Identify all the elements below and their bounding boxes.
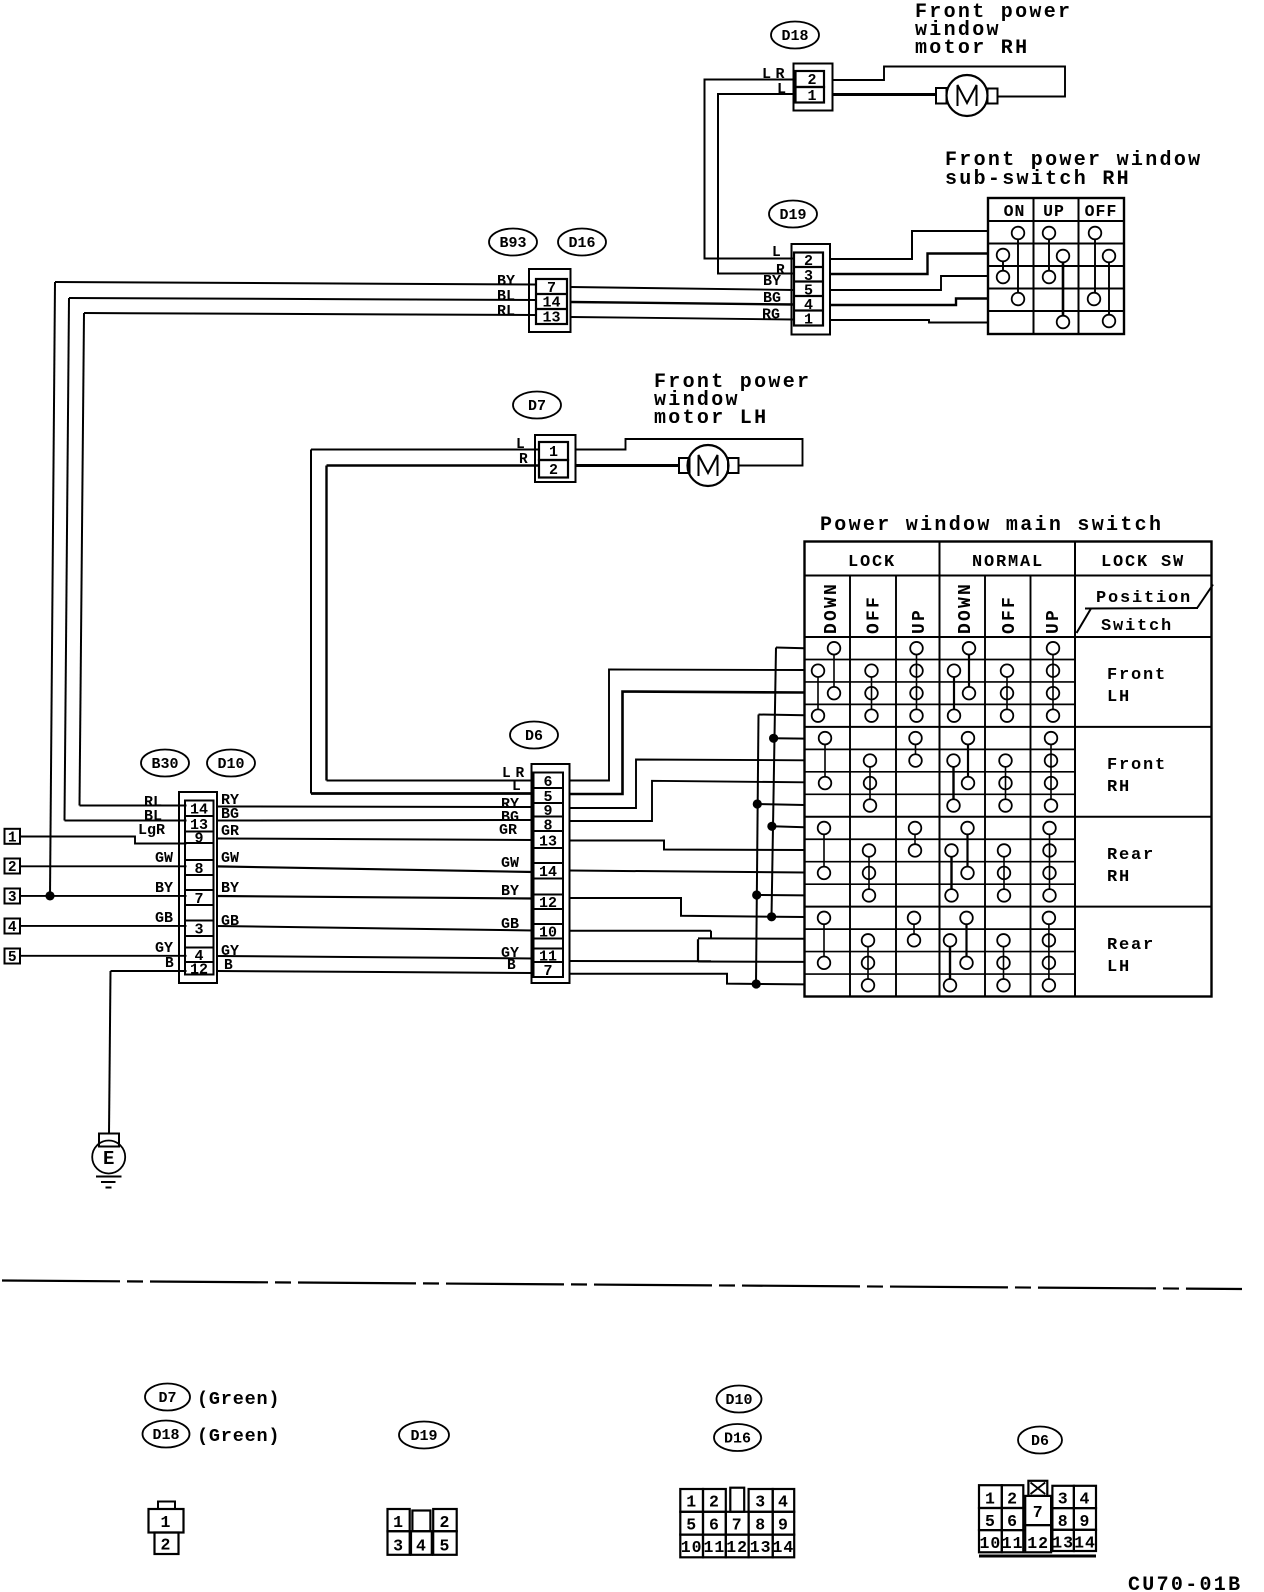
pinout icon D10/D16 bbox=[680, 1488, 794, 1558]
wire labels L R at D7 bbox=[516, 437, 528, 468]
svg-text:Rear: Rear bbox=[1107, 846, 1155, 865]
wire labels at D19: L R BY BG RG bbox=[762, 245, 785, 324]
svg-text:LOCK SW: LOCK SW bbox=[1101, 553, 1185, 572]
svg-text:7: 7 bbox=[194, 891, 203, 908]
wire terminal1 LgR to B30 pin9 bbox=[20, 837, 187, 844]
svg-text:8: 8 bbox=[755, 1515, 766, 1534]
svg-text:14: 14 bbox=[190, 802, 208, 819]
svg-text:L: L bbox=[772, 245, 781, 261]
legend oval D19 bbox=[399, 1422, 449, 1449]
svg-text:GR: GR bbox=[221, 823, 239, 840]
wire D6 pin9 to table row6 bbox=[570, 760, 805, 809]
sub-switch RH contact table bbox=[988, 198, 1124, 334]
svg-text:Front: Front bbox=[1107, 756, 1167, 775]
svg-text:(Green): (Green) bbox=[197, 1389, 280, 1410]
wire B30 pin9 GR to D6 pin13 bbox=[217, 839, 534, 841]
svg-text:GW: GW bbox=[155, 850, 173, 867]
svg-text:10: 10 bbox=[539, 925, 557, 942]
wire terminal5 GY to B30 pin4 bbox=[20, 955, 187, 957]
svg-text:LgR: LgR bbox=[138, 822, 165, 839]
wire B93 pin7 to D19 pin5 (BY) bbox=[571, 287, 795, 290]
svg-text:14: 14 bbox=[539, 864, 557, 881]
page terminal 4 bbox=[5, 919, 21, 937]
svg-text:2: 2 bbox=[807, 72, 816, 89]
connector oval D19 bbox=[769, 201, 817, 228]
svg-text:motor LH: motor LH bbox=[654, 407, 768, 430]
svg-text:1: 1 bbox=[804, 312, 813, 329]
svg-text:GR: GR bbox=[499, 822, 517, 839]
wire D19 pin2 to sub-switch row1 bbox=[830, 231, 988, 259]
wire label L at D18 pin1 bbox=[777, 81, 786, 98]
wire D7 pin2 to motor LH left terminal bbox=[576, 464, 680, 467]
svg-text:1: 1 bbox=[686, 1493, 697, 1512]
wire D18 pin2 to D19 pin2 (LR) bbox=[705, 80, 796, 259]
svg-text:BY: BY bbox=[155, 880, 173, 897]
legend oval D7 bbox=[145, 1384, 190, 1411]
svg-text:13: 13 bbox=[1052, 1534, 1074, 1553]
svg-text:12: 12 bbox=[1027, 1534, 1049, 1553]
switch group labels Front LH / Front RH / Rear RH / Rear LH bbox=[1107, 666, 1167, 707]
connector oval D7 bbox=[513, 392, 561, 419]
svg-text:4: 4 bbox=[1080, 1490, 1091, 1509]
svg-text:5: 5 bbox=[8, 950, 17, 966]
junction dot BY bbox=[45, 891, 54, 900]
svg-text:6: 6 bbox=[1007, 1512, 1018, 1531]
svg-text:B: B bbox=[507, 958, 516, 974]
svg-text:DOWN: DOWN bbox=[822, 582, 842, 634]
wire D6 pin10 to table row14 bbox=[570, 931, 805, 939]
wire D18 pin2 to motor RH right terminal bbox=[833, 67, 1066, 97]
label: Front power window motor RH bbox=[915, 1, 1072, 60]
svg-text:8: 8 bbox=[1058, 1512, 1069, 1531]
switch contacts Rear LH group bbox=[818, 912, 1055, 992]
svg-text:D10: D10 bbox=[217, 756, 244, 773]
svg-text:D18: D18 bbox=[781, 28, 808, 45]
label: Front power window motor LH bbox=[654, 371, 811, 430]
wire labels BY BL RL at B93 bbox=[497, 273, 515, 320]
svg-text:DOWN: DOWN bbox=[956, 582, 976, 634]
page terminal 5 bbox=[5, 949, 21, 967]
svg-text:D7: D7 bbox=[158, 1390, 176, 1407]
wire D19 pin3 to sub-switch row2 bbox=[830, 254, 988, 275]
wire D6 pin12 to table row13 bbox=[570, 898, 805, 917]
wire D7 pin1 to motor LH right terminal bbox=[576, 439, 803, 466]
wire D19 pin1 to sub-switch row5 bbox=[830, 320, 988, 323]
svg-text:BY: BY bbox=[763, 273, 781, 290]
svg-text:GB: GB bbox=[221, 913, 239, 930]
svg-text:10: 10 bbox=[681, 1538, 703, 1557]
switch contacts Rear RH group bbox=[818, 822, 1056, 902]
svg-text:sub-switch RH: sub-switch RH bbox=[945, 168, 1131, 191]
pinout icon D7/D18 bbox=[149, 1502, 184, 1555]
label: Front power window sub-switch RH bbox=[945, 149, 1202, 191]
wire B93 pin13 to D19 pin1 (RG) bbox=[571, 317, 795, 320]
svg-text:RH: RH bbox=[1107, 868, 1131, 887]
section separator line bbox=[2, 1281, 1242, 1290]
svg-text:3: 3 bbox=[1058, 1490, 1069, 1509]
svg-text:5: 5 bbox=[439, 1537, 450, 1556]
svg-text:Power window main switch: Power window main switch bbox=[820, 514, 1163, 537]
wire D6 pin5 to table row3 bbox=[570, 692, 805, 795]
svg-text:OFF: OFF bbox=[865, 595, 885, 634]
wire labels at D6 left: LR L RY BG GR GW BY GB GY B bbox=[499, 766, 525, 974]
wire D7 pin2 R to D6 pin6 bbox=[327, 466, 540, 781]
wire terminal2 GW to B30 pin8 bbox=[20, 865, 187, 867]
svg-text:11: 11 bbox=[703, 1538, 725, 1557]
svg-text:L: L bbox=[502, 766, 511, 782]
svg-text:14: 14 bbox=[1074, 1534, 1096, 1553]
legend D7 color note bbox=[197, 1389, 280, 1410]
wire D6 pin8 to table row7 bbox=[570, 781, 805, 821]
wire B30 pin4 GY to D6 pin11 bbox=[217, 956, 534, 959]
svg-text:D7: D7 bbox=[528, 398, 546, 415]
svg-text:B30: B30 bbox=[151, 756, 178, 773]
svg-text:(Green): (Green) bbox=[197, 1426, 280, 1447]
svg-text:4: 4 bbox=[416, 1537, 427, 1556]
legend D18 color note bbox=[197, 1426, 280, 1447]
svg-text:Switch: Switch bbox=[1101, 617, 1173, 636]
svg-text:1: 1 bbox=[393, 1513, 404, 1532]
wire B30 pin3 GB to D6 pin10 bbox=[217, 926, 534, 931]
svg-text:2: 2 bbox=[549, 462, 558, 479]
wire D19 pin5 to sub-switch row3 bbox=[830, 276, 988, 290]
wire terminal4 GB to B30 pin3 bbox=[20, 925, 187, 927]
connector ovals B30 and D10 bbox=[141, 750, 189, 777]
connector ovals B93 and D16 bbox=[489, 229, 537, 256]
svg-text:ON: ON bbox=[1004, 202, 1026, 221]
page terminal 2 bbox=[5, 859, 21, 877]
svg-text:motor RH: motor RH bbox=[915, 37, 1029, 60]
connector oval D6 bbox=[510, 722, 558, 749]
legend oval D18 bbox=[143, 1421, 190, 1448]
svg-text:UP: UP bbox=[1043, 202, 1065, 221]
wire label LR at D18 pin2 bbox=[762, 66, 785, 83]
pinout icon D6 bbox=[979, 1481, 1096, 1556]
svg-text:1: 1 bbox=[549, 444, 558, 461]
svg-text:9: 9 bbox=[778, 1515, 789, 1534]
svg-text:1: 1 bbox=[8, 830, 17, 846]
svg-text:8: 8 bbox=[543, 817, 552, 834]
svg-text:8: 8 bbox=[194, 861, 203, 878]
svg-text:14: 14 bbox=[773, 1538, 795, 1557]
svg-text:LH: LH bbox=[1107, 958, 1131, 977]
svg-text:OFF: OFF bbox=[1000, 595, 1020, 634]
wire D6 pin6 to table row2 bbox=[570, 670, 805, 781]
legend oval D16 bbox=[714, 1424, 761, 1451]
svg-text:4: 4 bbox=[8, 920, 17, 936]
svg-text:Rear: Rear bbox=[1107, 936, 1155, 955]
svg-text:Position: Position bbox=[1096, 589, 1192, 608]
motor M2 Front power window motor LH bbox=[679, 445, 739, 486]
svg-text:2: 2 bbox=[439, 1513, 450, 1532]
svg-text:12: 12 bbox=[190, 962, 208, 979]
svg-text:13: 13 bbox=[750, 1538, 772, 1557]
sub-switch contacts OFF column bbox=[1088, 227, 1116, 328]
sub-switch contacts UP column bbox=[1043, 227, 1070, 329]
svg-text:D16: D16 bbox=[568, 235, 595, 252]
svg-text:7: 7 bbox=[1033, 1503, 1044, 1522]
drawing number CU70-01B bbox=[1128, 1574, 1242, 1592]
svg-text:10: 10 bbox=[979, 1534, 1001, 1553]
header texts LOCK NORMAL LOCK SW bbox=[848, 553, 1185, 572]
wire D6 pin13 to table row10 bbox=[570, 841, 805, 851]
wire B93 pin7 BY long run to junction bbox=[50, 282, 536, 896]
wire B30 pin8 GW to D6 pin14 bbox=[217, 866, 534, 872]
svg-text:D19: D19 bbox=[779, 207, 806, 224]
wire B93 pin14 BL to B30 pin13 bbox=[65, 298, 537, 821]
wire B30 pin13 BG to D6 pin8 bbox=[217, 819, 534, 822]
junction dots on bus B bbox=[767, 734, 778, 922]
svg-text:3: 3 bbox=[8, 890, 17, 906]
svg-text:Front: Front bbox=[1107, 666, 1167, 685]
svg-text:9: 9 bbox=[1080, 1512, 1091, 1531]
connector B30/D10 body bbox=[179, 792, 217, 983]
svg-text:RG: RG bbox=[762, 307, 780, 324]
svg-text:5: 5 bbox=[985, 1512, 996, 1531]
svg-text:UP: UP bbox=[910, 608, 930, 634]
svg-text:6: 6 bbox=[709, 1515, 720, 1534]
svg-text:L: L bbox=[516, 437, 525, 453]
svg-text:E: E bbox=[103, 1148, 114, 1170]
connector B93/D16 body bbox=[529, 269, 571, 332]
motor M1 Front power window motor RH bbox=[936, 75, 998, 116]
svg-text:11: 11 bbox=[1002, 1534, 1024, 1553]
svg-text:L: L bbox=[777, 81, 786, 98]
svg-text:1: 1 bbox=[985, 1490, 996, 1509]
svg-text:D6: D6 bbox=[525, 728, 543, 745]
bus wire A (row4 common) bbox=[756, 715, 805, 985]
svg-text:L: L bbox=[512, 779, 521, 795]
svg-text:GY: GY bbox=[155, 940, 173, 957]
switch contacts Front RH group bbox=[819, 732, 1058, 812]
svg-text:9: 9 bbox=[194, 831, 203, 848]
Position/Switch diagonal cell bbox=[1077, 585, 1214, 637]
svg-text:1: 1 bbox=[161, 1513, 172, 1532]
svg-text:2: 2 bbox=[709, 1493, 720, 1512]
wire labels at B30 left: RL BL LgR GW BY GB GY B bbox=[138, 794, 174, 972]
page terminal 3 bbox=[5, 889, 21, 907]
wire B93 pin14 to D19 pin4 (BG) bbox=[571, 302, 795, 305]
wire D19 pin4 to sub-switch row4 bbox=[830, 299, 988, 306]
svg-text:2: 2 bbox=[1007, 1490, 1018, 1509]
svg-text:12: 12 bbox=[539, 895, 557, 912]
svg-text:LOCK: LOCK bbox=[848, 553, 896, 572]
svg-text:B: B bbox=[165, 956, 174, 972]
svg-text:CU70-01B: CU70-01B bbox=[1128, 1574, 1242, 1592]
junction dots on bus A bbox=[752, 799, 762, 988]
svg-text:D19: D19 bbox=[410, 1428, 437, 1445]
svg-text:3: 3 bbox=[194, 922, 203, 939]
connector D19 body bbox=[792, 244, 831, 335]
main switch table frame bbox=[805, 542, 1212, 997]
svg-text:OFF: OFF bbox=[1085, 202, 1118, 221]
sub-switch contacts ON column bbox=[997, 227, 1025, 306]
svg-text:D18: D18 bbox=[152, 1427, 179, 1444]
wire terminal3 BY to B30 pin7 bbox=[20, 895, 187, 897]
svg-text:D10: D10 bbox=[725, 1392, 752, 1409]
legend oval D6 bbox=[1018, 1427, 1062, 1454]
svg-text:5: 5 bbox=[686, 1515, 697, 1534]
wire D18 pin1 to motor RH left terminal bbox=[833, 93, 937, 96]
rotated column labels DOWN OFF UP bbox=[822, 582, 1064, 634]
svg-text:GB: GB bbox=[155, 910, 173, 927]
wire labels at B30 right: RY BG GR GW BY GB GY B bbox=[221, 792, 239, 974]
connector D18 body bbox=[794, 64, 833, 111]
svg-text:D6: D6 bbox=[1031, 1433, 1049, 1450]
wire B30 pin12 B to D6 pin7 bbox=[217, 971, 534, 973]
wire B30 pin7 BY to D6 pin12 bbox=[217, 896, 534, 899]
svg-text:2: 2 bbox=[161, 1536, 172, 1555]
page terminal 1 bbox=[5, 829, 21, 847]
svg-text:12: 12 bbox=[726, 1538, 748, 1557]
bus wire B (row1 common) bbox=[772, 648, 805, 917]
svg-text:B93: B93 bbox=[499, 235, 526, 252]
svg-text:GW: GW bbox=[221, 850, 239, 867]
wire D6 pin14 to table row11 bbox=[570, 871, 805, 873]
legend oval D10 bbox=[717, 1386, 762, 1413]
svg-text:RH: RH bbox=[1107, 778, 1131, 797]
wire D18 pin1 to D19 pin3 (L) bbox=[718, 94, 796, 274]
connector D6 body bbox=[532, 764, 570, 983]
svg-text:4: 4 bbox=[778, 1493, 789, 1512]
svg-text:D16: D16 bbox=[724, 1431, 751, 1448]
wire B30 pin14 RY to D6 pin9 bbox=[217, 806, 534, 809]
svg-text:1: 1 bbox=[807, 88, 816, 105]
svg-text:7: 7 bbox=[732, 1515, 743, 1534]
wire B93 pin13 RL to B30 pin14 bbox=[80, 313, 537, 806]
svg-text:BY: BY bbox=[221, 880, 239, 897]
wire D7 pin1 L to D6 pin5 bbox=[311, 450, 539, 794]
wire D6 pin11 to table row15 bbox=[570, 939, 805, 962]
connector D7 body bbox=[535, 435, 576, 482]
svg-text:RL: RL bbox=[497, 303, 515, 320]
wire B30 pin12 B to ground bbox=[109, 971, 187, 1134]
svg-text:GW: GW bbox=[501, 855, 519, 872]
svg-text:3: 3 bbox=[393, 1537, 404, 1556]
svg-text:NORMAL: NORMAL bbox=[972, 553, 1044, 572]
svg-text:UP: UP bbox=[1044, 608, 1064, 634]
ground E bbox=[92, 1134, 125, 1188]
svg-text:13: 13 bbox=[539, 834, 557, 851]
label: Power window main switch bbox=[820, 514, 1163, 537]
svg-text:2: 2 bbox=[8, 860, 17, 876]
svg-text:3: 3 bbox=[755, 1493, 766, 1512]
switch contacts Front LH group bbox=[812, 642, 1060, 722]
svg-text:LH: LH bbox=[1107, 688, 1131, 707]
connector oval D18 bbox=[771, 22, 819, 49]
pinout icon D19 bbox=[388, 1509, 457, 1556]
wire D6 pin7 to table row16 bbox=[570, 974, 805, 985]
svg-text:13: 13 bbox=[542, 310, 560, 327]
svg-text:7: 7 bbox=[543, 963, 552, 980]
